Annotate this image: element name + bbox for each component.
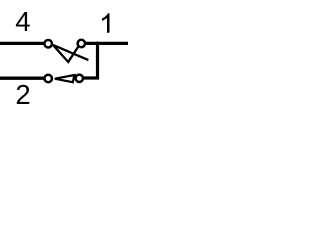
- svg-text:4: 4: [15, 6, 30, 37]
- svg-text:2: 2: [15, 79, 30, 110]
